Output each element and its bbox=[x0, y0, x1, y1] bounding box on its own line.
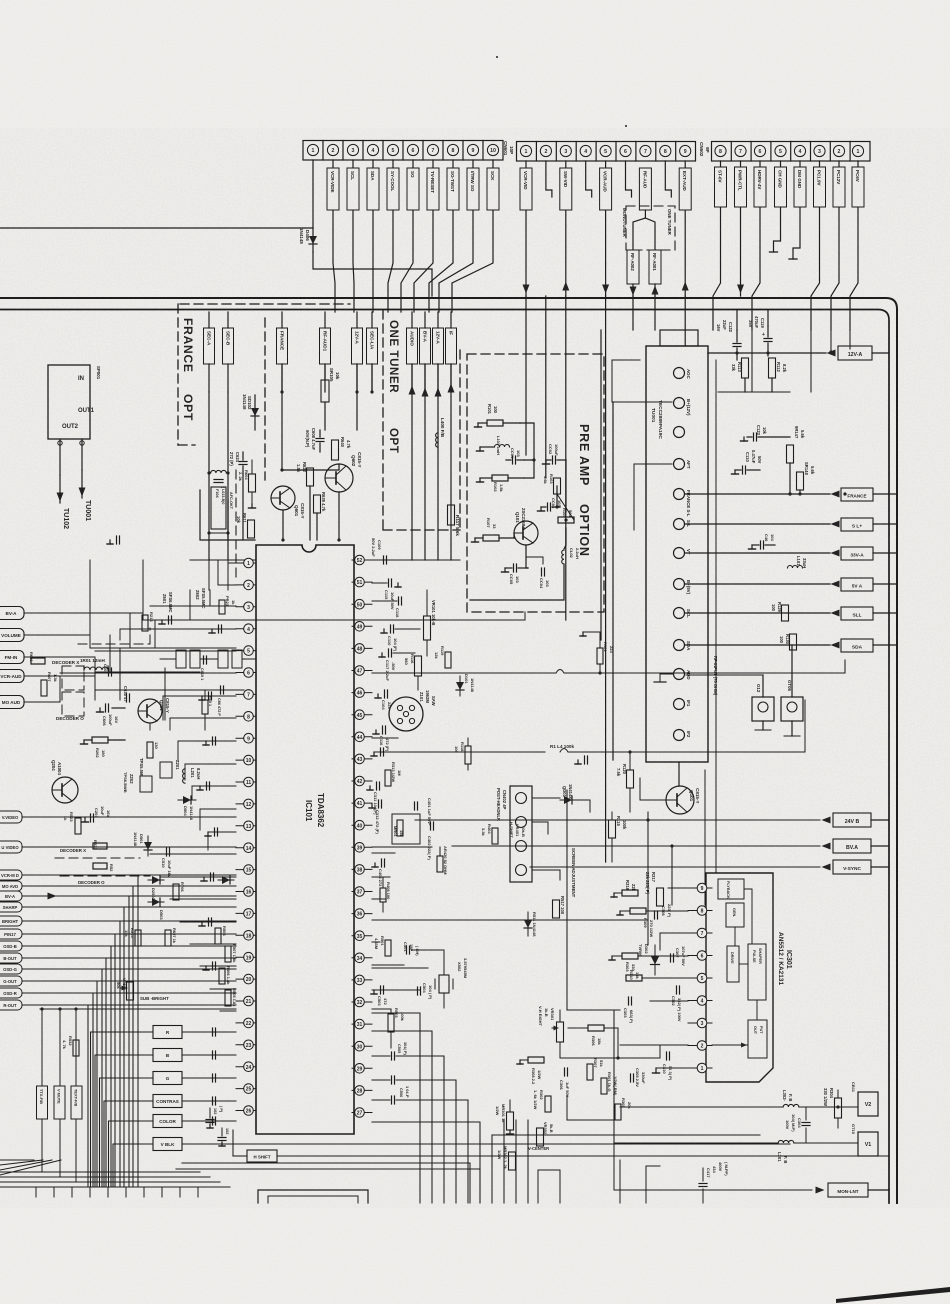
signal label EXT-AUD bbox=[679, 168, 691, 210]
resistor R611 10k bbox=[248, 520, 255, 538]
IC101 pin 24 bbox=[236, 1066, 256, 1068]
IC101 pin 4 bbox=[236, 628, 256, 630]
ONE TUNER OPT dashed outline bbox=[382, 310, 384, 530]
resistor R121 224 bbox=[597, 648, 603, 664]
jumper 12V-A bbox=[433, 328, 444, 364]
partial boxes bottom middle bbox=[619, 1160, 621, 1203]
wire pin2 run bbox=[620, 1044, 688, 1046]
IC101 pin 18 bbox=[236, 934, 256, 936]
pin 7 CN603 bbox=[735, 145, 746, 156]
pin 6 CN602 bbox=[620, 145, 631, 156]
ONE TUNER option dashed box bbox=[626, 206, 675, 250]
diode D502 bbox=[148, 879, 164, 881]
tuner pin IF1 bbox=[674, 699, 685, 710]
wire MO AUD bbox=[24, 688, 60, 702]
resistor R601 1k bbox=[202, 700, 208, 714]
IC101 pin 31 bbox=[352, 1023, 372, 1025]
resistor R408 100 bbox=[380, 888, 386, 902]
tuner pin AGC bbox=[674, 368, 685, 379]
jumper SEC-A bbox=[204, 328, 215, 364]
jumper IF bbox=[446, 328, 457, 364]
wire bus x613 bbox=[612, 402, 614, 760]
jumper RF-A002 bbox=[627, 250, 639, 284]
filter Z201 bbox=[160, 762, 172, 778]
terminal V1 bbox=[858, 1132, 878, 1156]
IC101 pin 29 bbox=[352, 1067, 372, 1069]
IC101 pin 32 bbox=[352, 1001, 372, 1003]
wire FM-IN bbox=[24, 656, 95, 658]
wire ST-6V bbox=[713, 161, 721, 330]
IC301 pin 1 bbox=[688, 1067, 712, 1069]
inductor L301 F.B bbox=[778, 1140, 794, 1143]
wire FRANCE node bbox=[281, 364, 283, 470]
wire bus x523 bbox=[525, 296, 527, 455]
resistor R606 bbox=[31, 658, 45, 664]
mesh Q602 region extras bbox=[89, 560, 91, 613]
transistor Q601 C815-Y bbox=[271, 486, 295, 510]
resistor R622 bbox=[307, 468, 314, 486]
capacitor C220 bbox=[210, 873, 212, 881]
wire pin6 run bbox=[638, 955, 688, 957]
resistor R505 1.8k bbox=[225, 990, 231, 1006]
input B-OUT bbox=[0, 953, 22, 963]
control box R bbox=[153, 1026, 182, 1039]
wire bus x601 bbox=[600, 330, 602, 640]
IC101 pin 36 bbox=[352, 913, 372, 915]
pin 2 CN601 bbox=[327, 144, 338, 155]
wire G right bbox=[182, 1077, 236, 1079]
pin 5 CN601 bbox=[387, 144, 398, 155]
tuner pin SDA bbox=[674, 640, 685, 651]
pin 7 CN602 bbox=[640, 145, 651, 156]
wires tuner top bbox=[707, 352, 709, 354]
resistor R103 5.6k bbox=[554, 478, 561, 494]
resistor R105 560 bbox=[558, 517, 574, 523]
resistor R604 2.2k bbox=[249, 474, 256, 492]
IC101 pin 17 bbox=[236, 912, 256, 914]
resistor R532 4.7k bbox=[73, 1040, 79, 1056]
wire tuner IF to Q101 bbox=[678, 762, 680, 786]
wire row y1135 bbox=[492, 1134, 760, 1136]
control box G bbox=[153, 1072, 182, 1085]
IC101 pin 16 bbox=[236, 891, 256, 893]
IC101 pin 14 bbox=[236, 847, 256, 849]
capacitor C110 0.47uF bbox=[742, 466, 744, 474]
IC101 pin 3 bbox=[236, 606, 256, 608]
jumper TTX-F/B bbox=[37, 1086, 48, 1119]
page link 24V B bbox=[415, 819, 820, 821]
wire VCR-AUD down bbox=[605, 161, 607, 296]
resistor R112 8.2k bbox=[769, 358, 776, 378]
wire CN601 pin6 bbox=[401, 160, 413, 312]
wire bus x686 bbox=[684, 296, 686, 345]
AFC tank coil bbox=[211, 470, 227, 473]
diode D501 1N4148 bbox=[147, 836, 149, 856]
capacitor C86 472 bbox=[220, 686, 222, 694]
IC101 pin 52 bbox=[352, 559, 372, 561]
jumper SEC-L/A bbox=[367, 328, 378, 364]
wire bus x607 bbox=[605, 296, 607, 862]
connector CN602 strip bbox=[517, 142, 696, 162]
pin 1 CN601 bbox=[307, 144, 318, 155]
IC101 pin 30 bbox=[352, 1045, 372, 1047]
tuner TU001 outline bbox=[646, 346, 708, 762]
capacitor C305 2.5V 330uF bbox=[630, 1074, 632, 1082]
resistor R504 1k bbox=[215, 928, 221, 944]
wire pin5 run bbox=[642, 977, 688, 979]
resistor R115 100k bbox=[609, 820, 616, 838]
capacitor C109 2.2uF bbox=[383, 556, 385, 564]
wire CN601 pin9 bbox=[439, 160, 473, 312]
input VCR-AUD bbox=[0, 670, 24, 683]
wire R right bbox=[182, 1031, 236, 1033]
wire bus x547 bbox=[545, 296, 547, 478]
long rows to IC301 region bbox=[388, 1055, 816, 1092]
tuner pin B+(5V) bbox=[674, 579, 685, 590]
stub wire CN602 pin6 bbox=[626, 161, 632, 197]
pin 4 CN602 bbox=[580, 145, 591, 156]
capacitor C624 272 bbox=[239, 461, 247, 463]
IC101 pin 1 bbox=[236, 562, 256, 564]
IC101 pin 37 bbox=[352, 891, 372, 893]
capacitor C503 102P bbox=[221, 1128, 223, 1136]
tuner pin VT bbox=[674, 548, 685, 559]
upper decoder dashed bus bbox=[78, 643, 150, 645]
resistor R304 330 1/2W bbox=[835, 1098, 842, 1118]
capacitor C608 bbox=[316, 438, 324, 440]
nested L below IC101 bbox=[182, 1163, 470, 1203]
IC101 pin 43 bbox=[352, 758, 372, 760]
wire pin8 run bbox=[646, 910, 688, 912]
signal label DM GND bbox=[794, 167, 806, 207]
connector CN603 strip bbox=[712, 142, 871, 162]
wire COLOR right bbox=[182, 1120, 236, 1122]
input U VIDEO bbox=[0, 841, 22, 853]
resistor 9R147 5.6k bbox=[787, 445, 794, 463]
wire x705 vertical bbox=[704, 770, 706, 905]
IC101 pin 51 bbox=[352, 581, 372, 583]
capacitor C502 102P bbox=[209, 1108, 211, 1118]
control box B bbox=[153, 1049, 182, 1062]
wire bus x633 bbox=[632, 296, 634, 330]
wire 12V-A down bbox=[356, 364, 358, 430]
junction dots right bbox=[843, 492, 846, 495]
IC301 pin 5 bbox=[688, 977, 712, 979]
IC101 pin 28 bbox=[352, 1089, 372, 1091]
wire pin9 run bbox=[668, 887, 688, 889]
wire CONTRAS left bbox=[104, 1101, 153, 1186]
resistor R521 bbox=[93, 843, 107, 849]
wire VCR-VID down bbox=[525, 161, 527, 296]
capacitor C605 bbox=[108, 668, 110, 676]
wire VCR-AUD bbox=[24, 675, 60, 677]
resistor R305 20k bbox=[615, 1104, 621, 1120]
capacitor C306 1uF 50V bbox=[564, 1068, 566, 1076]
ground CH GND bbox=[774, 161, 781, 252]
wire hdrv feed bbox=[751, 330, 753, 392]
SAW filter Z101 1962M bbox=[389, 697, 423, 731]
IC301 inner wires bbox=[744, 889, 752, 944]
pin 8 CN603 bbox=[715, 145, 726, 156]
input PIN17 bbox=[0, 929, 22, 939]
signal label PC6V bbox=[852, 167, 864, 207]
wire 12V-A2 down bbox=[437, 364, 439, 560]
wire pin1 run bbox=[668, 1067, 688, 1069]
IC301 pin 6 bbox=[688, 955, 712, 957]
capacitor C218 bbox=[206, 782, 208, 790]
IC101 pin 20 bbox=[236, 978, 256, 980]
wires upper audio verticals bbox=[119, 648, 121, 700]
wire AUDIO down bbox=[411, 364, 413, 560]
arrow on BV-A row bbox=[48, 893, 57, 900]
terminal GT05 bbox=[781, 697, 803, 721]
resistor R302 1.6k bbox=[545, 1096, 551, 1112]
IC101 pin 6 bbox=[236, 672, 256, 674]
wire RF-AUD into option bbox=[644, 210, 646, 218]
IC101 pin 22 bbox=[236, 1022, 256, 1024]
block DRIVE bbox=[727, 946, 739, 982]
wires G12/GT05 bbox=[762, 675, 764, 697]
input FM-IN bbox=[0, 651, 24, 664]
control box COLOR bbox=[153, 1115, 182, 1128]
resistor R306 18k bbox=[588, 1025, 604, 1031]
IC101 pin 15 bbox=[236, 869, 256, 871]
pin 8 CN601 bbox=[447, 144, 458, 155]
block FLYBACK bbox=[718, 879, 744, 899]
resistor R118 100 bbox=[465, 746, 471, 764]
wire HDRV-4V bbox=[752, 161, 760, 330]
input VOLUME bbox=[0, 629, 24, 642]
wire PWR-CTL bbox=[740, 161, 742, 296]
capacitor C115 10uF 50V bbox=[388, 579, 390, 587]
wire AFT left bbox=[634, 463, 672, 465]
pin 1 CN603 bbox=[852, 145, 863, 156]
resistor R318 22k bbox=[622, 890, 638, 896]
capacitor C311 104P bbox=[376, 782, 378, 790]
capacitor CC04 103 bbox=[541, 568, 543, 576]
trimmer VR101 10k-B bbox=[424, 616, 431, 640]
connector CN601 strip bbox=[303, 141, 503, 161]
capacitor C630 47uF bbox=[126, 694, 128, 702]
resistor R317 22k bbox=[657, 888, 664, 906]
capacitor C310 51k bbox=[666, 1052, 668, 1060]
jumper RF-AUD1 bbox=[320, 328, 331, 364]
speck top bbox=[496, 56, 498, 58]
wire H SHIFT long bbox=[277, 1155, 889, 1157]
resistor R107 33 bbox=[483, 535, 499, 541]
page link BV.A bbox=[452, 845, 820, 847]
diode SD102 1N4148 bbox=[254, 395, 256, 430]
signal label SO-TWST bbox=[447, 168, 459, 210]
IC101 pin 9 bbox=[236, 737, 256, 739]
wire CN601 pin10 bbox=[452, 160, 493, 312]
IC301 pin 7 bbox=[688, 932, 712, 934]
IC101 pin 10 bbox=[236, 759, 256, 761]
pin 9 CN602 bbox=[680, 145, 691, 156]
signal label ST-6V bbox=[715, 167, 727, 207]
wire BV-A down bbox=[424, 364, 426, 560]
capacitor CC02 100uF bbox=[552, 456, 554, 464]
tuner pin IF2 bbox=[674, 730, 685, 741]
IC101 pin 12 bbox=[236, 803, 256, 805]
IC101 pin 34 bbox=[352, 957, 372, 959]
input OSD-R bbox=[0, 988, 22, 998]
diode QD01 1N4148 bbox=[560, 799, 576, 801]
preamp wiring bbox=[520, 423, 534, 460]
jumper SEC-B bbox=[223, 328, 234, 364]
IC301 pin 2 bbox=[688, 1045, 712, 1047]
IC101 pin 27 bbox=[352, 1112, 372, 1114]
wire mesh upper left bbox=[149, 723, 151, 730]
wire PC1.9V bbox=[811, 161, 820, 330]
wires VR30x mesh bbox=[560, 1057, 660, 1059]
resistor R517 100 bbox=[553, 900, 560, 918]
resistor R102 1.5k bbox=[492, 475, 508, 481]
IC101 TDA8362 outline bbox=[256, 545, 354, 1134]
resistor R639 4.7k bbox=[314, 495, 321, 513]
trimmer VR302 5k-B V-CENTER bbox=[537, 1128, 544, 1146]
page link SLL bbox=[685, 612, 830, 614]
page link S L+ bbox=[685, 523, 830, 525]
signal label HDRV-4V bbox=[754, 167, 766, 207]
stub wire CN602 pin4 bbox=[586, 161, 592, 197]
control box CONTRAS bbox=[153, 1095, 182, 1108]
jumper V MUTE bbox=[54, 1086, 65, 1119]
wire VOLUME bbox=[24, 635, 236, 648]
mesh right of IC101 bottom bbox=[396, 1013, 420, 1203]
transistor Q101 C815-Y bbox=[666, 786, 694, 814]
tuner pin ADD bbox=[674, 669, 685, 680]
IC301 pin 9 bbox=[688, 887, 712, 889]
wire OUT1 bbox=[81, 439, 83, 470]
PRE AMP OPTION dashed box bbox=[467, 354, 604, 612]
resistor R522 bbox=[93, 863, 107, 869]
inductor C102 2.2uH bbox=[562, 550, 564, 564]
wire PC12V bbox=[831, 161, 839, 330]
wire headphone rows bbox=[532, 822, 548, 834]
IC101 pin 44 bbox=[352, 736, 372, 738]
signal label SY-COOL bbox=[387, 168, 399, 210]
signal label SCK bbox=[487, 168, 499, 210]
wire pin39-38 runs bbox=[372, 852, 395, 854]
wire to IC101 pin2 bbox=[218, 560, 236, 585]
wire pin44 run bbox=[372, 737, 398, 739]
jumper 12V-A bbox=[352, 328, 363, 364]
IC301 outline bbox=[706, 873, 773, 1082]
resistor R506 1.8k bbox=[219, 968, 225, 984]
IC101 pin 41 bbox=[352, 802, 372, 804]
capacitor C221 bbox=[208, 918, 210, 926]
resistor R303 330 bbox=[622, 953, 638, 959]
capacitor CC03 103 bbox=[547, 503, 549, 511]
page corner mark bbox=[836, 1287, 950, 1303]
wire pin7 run bbox=[660, 932, 688, 934]
inductor L201 8.2uH bbox=[183, 769, 185, 783]
input V.VIDEO bbox=[0, 811, 22, 823]
IC101 pin 48 bbox=[352, 647, 372, 649]
input OSD-G bbox=[0, 964, 22, 974]
dashed inner france bbox=[235, 470, 237, 580]
diode D503 bbox=[148, 901, 164, 903]
capacitor C623 bbox=[116, 536, 118, 544]
capacitor C304 104 100V bbox=[802, 1122, 810, 1124]
diode D406 1N4148 bbox=[312, 228, 314, 252]
wire preamp out to tuner bbox=[612, 360, 640, 402]
input BV-A bbox=[0, 891, 22, 901]
page link 12V-A bbox=[708, 352, 826, 354]
signal label I/TRW SO bbox=[467, 168, 479, 210]
pin 3 CN603 bbox=[814, 145, 825, 156]
IC101 pin 19 bbox=[236, 956, 256, 958]
resistor R515 15k bbox=[135, 930, 141, 946]
page link 33V-A bbox=[685, 552, 830, 554]
resistor R116 560 bbox=[415, 656, 422, 676]
resistor R203 130 bbox=[147, 742, 153, 758]
jumper TEXT-F/B bbox=[71, 1086, 82, 1119]
resistor R503 100k bbox=[388, 1014, 394, 1032]
IC101 pin 2 bbox=[236, 584, 256, 586]
tuner pin nc bbox=[674, 427, 685, 438]
page link V-SYNC bbox=[530, 866, 820, 868]
input OSD-B bbox=[0, 941, 22, 951]
wire SEC-L/A down bbox=[371, 364, 373, 392]
IC101 pin 5 bbox=[236, 650, 256, 652]
FRANCE OPT dashed outline bbox=[180, 303, 350, 305]
input BRIGHT bbox=[0, 916, 22, 926]
input G-OUT bbox=[0, 976, 22, 986]
resistor R404 3.3k bbox=[492, 828, 498, 844]
row to pin21 with taps bbox=[40, 1008, 236, 1010]
IC101 pin 46 bbox=[352, 692, 372, 694]
capacitor C222 bbox=[212, 962, 214, 970]
jumper RF-A001 bbox=[649, 250, 661, 284]
bus stubs downward bbox=[35, 1187, 37, 1197]
capacitor C417 434 400V bbox=[699, 1183, 707, 1185]
IC101 pin 38 bbox=[352, 868, 372, 870]
wire bus x655 bbox=[654, 296, 656, 330]
capacitor C123 10uF bbox=[753, 433, 755, 441]
wire screen adj vertical bbox=[566, 790, 568, 1010]
inductor L101 33uH bbox=[788, 566, 803, 569]
capacitor C610 1uF bbox=[203, 656, 205, 664]
IC101 pin 13 bbox=[236, 825, 256, 827]
resistor R507 1.8k bbox=[225, 946, 231, 962]
wire IF down bbox=[450, 364, 452, 560]
diode D302 TVR06 bbox=[654, 945, 656, 975]
IC101 pin 21 bbox=[236, 1000, 256, 1002]
capacitor C116 472P bbox=[382, 726, 384, 734]
IC101 pin 50 bbox=[352, 603, 372, 605]
decoder O switch bbox=[62, 692, 84, 716]
wire to IC101 pin1 bbox=[228, 560, 236, 563]
wire RF-A001 down bbox=[654, 284, 656, 296]
capacitor C213 bbox=[218, 625, 220, 633]
IC101 pin 26 bbox=[236, 1110, 256, 1112]
wire CN601 pin5 bbox=[388, 160, 393, 312]
pin 1 CN602 bbox=[520, 145, 531, 156]
resonator X502 3.579545M bbox=[439, 975, 449, 993]
tuner pin FRANCE S-L bbox=[674, 489, 685, 500]
capacitor C122 22uF 16V bbox=[733, 343, 741, 345]
resistor AR420 82 bbox=[437, 856, 443, 872]
input R-OUT bbox=[0, 1000, 22, 1010]
diode D101 1N4148 bbox=[459, 676, 461, 696]
extra mesh left audio region bbox=[60, 657, 95, 676]
pin 6 CN601 bbox=[407, 144, 418, 155]
wire CN601 pin8 bbox=[429, 160, 453, 312]
IC101 pin 40 bbox=[352, 824, 372, 826]
wire pc feeds right bbox=[810, 330, 812, 392]
